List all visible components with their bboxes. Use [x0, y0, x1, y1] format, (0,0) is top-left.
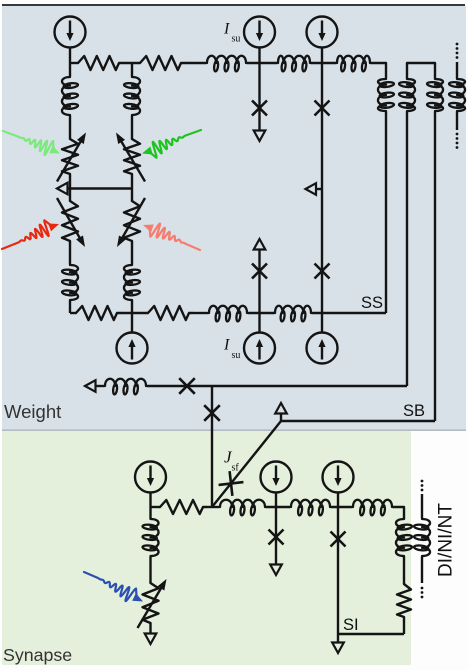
- wire: [312, 312, 386, 314]
- resistor R2: [140, 56, 184, 70]
- transformer T2 primary winding: [435, 78, 443, 112]
- svg-text:DI/NI/NT: DI/NI/NT: [436, 503, 457, 577]
- wire: [331, 506, 352, 508]
- inductor L7 (bottom rail): [208, 306, 248, 313]
- wire through mid node: [69, 176, 71, 201]
- wire: [266, 506, 290, 508]
- wire: [247, 62, 277, 64]
- inductor L5 (top rail): [206, 56, 247, 63]
- wire: [131, 243, 133, 264]
- inductor L8 (bottom rail): [274, 306, 312, 313]
- wire stub down with continuation dots: [456, 112, 458, 130]
- mid coupling wire with left arrow: [57, 183, 68, 195]
- wire column B down: [321, 63, 323, 313]
- Josephson junction J5: [179, 378, 195, 394]
- inductor L13 (synapse rail): [352, 500, 393, 507]
- resistor R6 (vertical): [397, 584, 411, 620]
- wire SS vertical: [385, 112, 387, 313]
- Josephson junction J2: [252, 264, 267, 279]
- photon pulse (red, right): [150, 224, 200, 250]
- inductor L11 (synapse rail): [219, 500, 266, 507]
- inductor L1 (left column): [62, 76, 70, 116]
- wire: [149, 557, 151, 583]
- wire: [69, 116, 71, 139]
- current source I5 (bottom middle): [258, 313, 260, 333]
- inductor L3 (right column): [132, 76, 140, 116]
- wire: [120, 312, 148, 314]
- wire: [280, 414, 282, 421]
- variable resistor VR2 (flux injector, left lower): [62, 201, 78, 243]
- svg-text:SI: SI: [343, 616, 359, 634]
- wire: [149, 625, 151, 634]
- wire: [184, 62, 206, 64]
- coupling stub arrow (left) on column B: [316, 188, 322, 190]
- wire down: [275, 507, 277, 565]
- variable resistor VR1 (flux injector, left upper): [62, 139, 78, 176]
- inductor L12 (synapse rail): [290, 500, 331, 507]
- variable resistor VR4 (flux injector, right lower): [124, 201, 140, 243]
- Josephson junction J6: [204, 405, 220, 421]
- wire: [206, 506, 219, 508]
- wire right column top: [131, 63, 133, 76]
- wire from I2 to top rail: [258, 48, 260, 64]
- Synapse region background: [2, 431, 411, 665]
- variable resistor VR5 (synapse flux injector): [143, 583, 159, 625]
- wire: [258, 250, 260, 314]
- bottom rail wire: [70, 312, 76, 314]
- inductor L10 (flux line): [104, 379, 147, 386]
- resistor R4: [148, 306, 192, 320]
- Josephson junction J1: [252, 101, 267, 116]
- SB wire: [281, 420, 435, 422]
- arrow out (down) synapse left: [145, 634, 157, 645]
- Weight region background: [2, 6, 466, 430]
- svg-text:SB: SB: [403, 402, 425, 420]
- inductor L6 (top rail): [277, 56, 311, 63]
- SI return wire: [338, 633, 404, 635]
- output transformer T3 secondary winding: [422, 518, 430, 557]
- resistor R3: [76, 306, 120, 320]
- photon pulse (red, left): [2, 220, 52, 249]
- wire stub up with dots: [421, 494, 423, 518]
- Josephson junction J3: [315, 101, 330, 116]
- inductor L9 (top rail right): [336, 56, 371, 63]
- wire from I1 to top rail: [69, 48, 71, 64]
- variable resistor VR3 (flux injector, right upper): [124, 139, 140, 176]
- wire: [96, 385, 105, 387]
- resistor R1: [78, 56, 122, 70]
- current source I6 (bottom): [321, 313, 323, 333]
- wire secondary top link: [407, 63, 435, 78]
- wire from T1 secondary down: [406, 112, 408, 386]
- current source I3 (top): [307, 17, 338, 48]
- current source I4 (bottom left): [131, 313, 133, 333]
- wire: [337, 493, 339, 508]
- wire: [131, 116, 133, 139]
- wire: [122, 62, 140, 64]
- wire corner to transformer: [371, 63, 386, 78]
- wire down to synapse: [211, 386, 213, 507]
- arrow in (up) column A lower: [254, 239, 266, 250]
- output transformer T3 primary winding: [396, 518, 404, 557]
- Josephson junction J8: [331, 532, 346, 547]
- synapse rail wire: [151, 506, 161, 508]
- svg-text:su: su: [232, 34, 241, 45]
- wire: [403, 557, 405, 584]
- svg-text:SS: SS: [361, 294, 383, 312]
- photon pulse (green, left): [3, 131, 54, 155]
- wire: [69, 301, 71, 313]
- wire stub down with dots: [421, 557, 423, 583]
- Josephson junction J_sf: [230, 471, 233, 496]
- wire left column top: [69, 63, 71, 76]
- Josephson junction J7: [269, 530, 284, 545]
- current source I7 (synapse left): [135, 462, 166, 493]
- arrow out (down): [270, 565, 282, 576]
- wire corner to output transformer: [393, 507, 404, 518]
- arrow out (down) SI: [332, 643, 344, 654]
- resistor R5: [160, 500, 206, 514]
- svg-text:Weight: Weight: [4, 401, 61, 422]
- junction J_sf diagonal wire: [212, 421, 281, 507]
- svg-text:sf: sf: [232, 463, 240, 474]
- svg-text:su: su: [232, 350, 241, 361]
- wire through mid node: [131, 176, 133, 201]
- SB arrow (up): [275, 403, 287, 414]
- current source I9 (synapse right): [323, 462, 354, 493]
- top boundary wire: [2, 4, 465, 6]
- wire from I3 to top rail: [321, 48, 323, 64]
- arrow out (down) column A: [254, 131, 266, 142]
- wire flux line to T1 secondary: [147, 385, 407, 387]
- arrow out (left) of flux line: [85, 380, 96, 392]
- wire: [192, 312, 208, 314]
- photon pulse (blue): [84, 572, 137, 601]
- wire: [69, 243, 71, 264]
- wire: [149, 493, 151, 508]
- wire: [275, 493, 277, 508]
- Josephson junction J4: [315, 264, 330, 279]
- wire: [311, 62, 336, 64]
- svg-text:Synapse: Synapse: [3, 645, 72, 665]
- wire: [131, 301, 133, 313]
- wire stub up with continuation dots: [456, 62, 458, 78]
- wire: [403, 620, 405, 634]
- wire SI vertical: [337, 507, 339, 643]
- inductor L14 (synapse storage): [151, 518, 159, 557]
- current source I8 (synapse middle): [261, 462, 292, 493]
- wire: [248, 312, 274, 314]
- current source I1 (top left): [55, 17, 86, 48]
- svg-text:I: I: [223, 337, 230, 354]
- transformer T1 secondary winding: [407, 78, 415, 112]
- svg-text:I: I: [223, 21, 230, 38]
- transformer T2 secondary winding: [457, 78, 465, 112]
- wire from T2 down to SB: [434, 112, 436, 421]
- current source I2 (top middle): [244, 17, 275, 48]
- wire column A down: [258, 63, 260, 131]
- top rail wire segment: [70, 62, 78, 64]
- synapse left column wire: [149, 507, 151, 518]
- photon pulse (green, right): [149, 130, 201, 158]
- inductor L4 (right column bottom): [124, 264, 132, 301]
- transformer T1 primary winding: [378, 78, 386, 112]
- inductor L2 (left column bottom): [70, 264, 78, 301]
